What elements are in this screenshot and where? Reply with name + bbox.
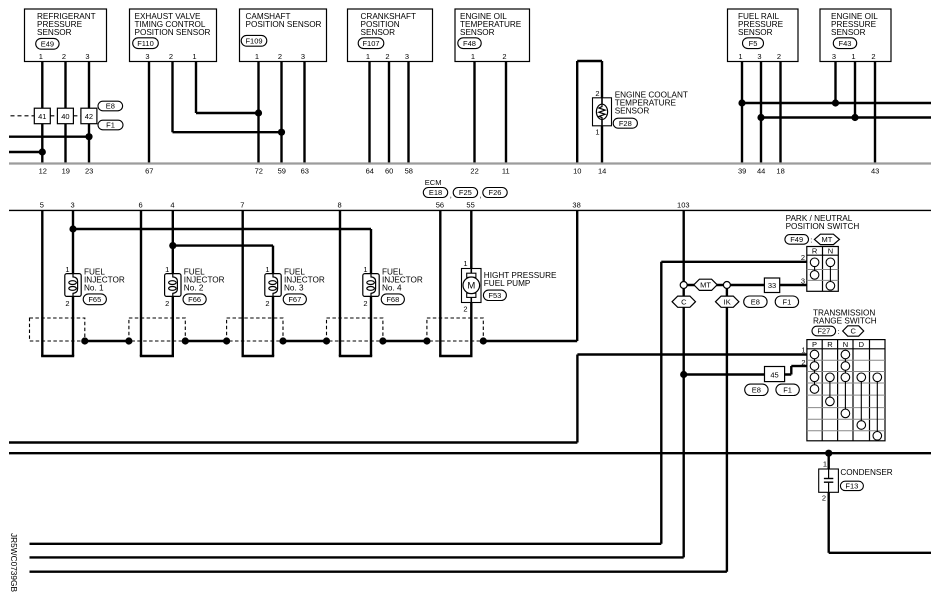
- shield chain junction dot: [423, 337, 430, 344]
- wire camshaft pin2 to ECM 59: [280, 62, 282, 164]
- svg-text:CONDENSER: CONDENSER: [840, 468, 892, 477]
- svg-text:63: 63: [301, 167, 309, 176]
- svg-text:2: 2: [801, 358, 805, 367]
- svg-text:60: 60: [385, 167, 393, 176]
- svg-text:1: 1: [65, 265, 69, 274]
- svg-text:SENSOR: SENSOR: [831, 28, 866, 37]
- engine oil pressure sensor F43: [820, 9, 891, 62]
- junction dot 103 column at 45-wire: [680, 371, 687, 378]
- svg-text:F110: F110: [137, 39, 154, 48]
- svg-text:F49: F49: [790, 235, 803, 244]
- shield chain junction dot: [223, 337, 230, 344]
- fuel injector No.1 F65: [65, 265, 125, 308]
- svg-text:2: 2: [65, 299, 69, 308]
- svg-text:1: 1: [463, 259, 467, 268]
- svg-text:F67: F67: [288, 295, 301, 304]
- wire ECM 55 down to fuel pump pin1: [470, 210, 472, 268]
- wire ECM 6 down to shield U2: [140, 210, 142, 356]
- wire condenser pin1 stub: [828, 453, 830, 469]
- wire drop 38/trans row1 down: [576, 355, 578, 443]
- transmission range switch F27: [801, 308, 885, 440]
- svg-text:POSITION SWITCH: POSITION SWITCH: [786, 222, 860, 231]
- svg-text:2: 2: [502, 52, 506, 61]
- wire below C connector down: [683, 288, 685, 557]
- svg-text:2: 2: [278, 52, 282, 61]
- wire pin1 E49 to ECM 12 (through connector 41): [41, 62, 43, 164]
- svg-text:1: 1: [471, 52, 475, 61]
- wire ECM 103 down to connector circle: [683, 210, 685, 281]
- svg-text:1: 1: [363, 265, 367, 274]
- svg-text:M: M: [467, 281, 475, 292]
- svg-text:MT: MT: [821, 235, 832, 244]
- svg-text:18: 18: [776, 167, 784, 176]
- svg-text:55: 55: [466, 201, 474, 210]
- svg-text:103: 103: [677, 201, 690, 210]
- junction dot at 42-column y137: [85, 133, 92, 140]
- wire harness segment y137: [9, 135, 89, 137]
- connector hexagon C below circle: [672, 296, 695, 307]
- wire injector3 pin2 down: [272, 296, 274, 356]
- connector hexagon IK below circle: [716, 296, 739, 307]
- svg-text:F1: F1: [783, 297, 792, 306]
- svg-text:POSITION SENSOR: POSITION SENSOR: [246, 20, 322, 29]
- wire fuel rail pin1 to ECM 39: [741, 62, 743, 164]
- svg-text:D: D: [859, 340, 865, 349]
- svg-text:N: N: [843, 340, 848, 349]
- svg-text:4: 4: [170, 201, 174, 210]
- junction dot F5 pin1: [738, 99, 745, 106]
- svg-text:67: 67: [145, 167, 153, 176]
- connector hexagon MT on wire: [694, 279, 717, 290]
- svg-text:R: R: [812, 246, 818, 255]
- svg-text:F27: F27: [817, 327, 830, 336]
- connector oval F1 (row): [775, 296, 798, 307]
- svg-text:F25: F25: [459, 188, 472, 197]
- svg-text:RANGE SWITCH: RANGE SWITCH: [813, 317, 877, 326]
- connector oval E8 (top): [98, 101, 123, 111]
- svg-text:No. 4: No. 4: [382, 284, 402, 293]
- shield chain junction dot: [182, 337, 189, 344]
- dashed link line through connectors 41 40 42: [11, 115, 35, 117]
- svg-text:2: 2: [801, 253, 805, 262]
- wire bottom run y571.3: [30, 571, 727, 573]
- wire crankshaft pin3 to ECM 58: [407, 62, 409, 164]
- svg-text:3: 3: [85, 52, 89, 61]
- svg-text:SENSOR: SENSOR: [361, 28, 396, 37]
- branch wire 4 to injector3 pin1: [173, 244, 273, 246]
- svg-text:12: 12: [39, 167, 47, 176]
- svg-text:MT: MT: [700, 281, 711, 290]
- svg-text:E18: E18: [429, 188, 442, 197]
- terminal box 45: [765, 367, 785, 382]
- svg-text:22: 22: [470, 167, 478, 176]
- svg-text:3: 3: [405, 52, 409, 61]
- camshaft position sensor F109: [240, 9, 327, 62]
- connector terminal box 40: [57, 108, 73, 124]
- wire connector line C-MT-IK-33 to park/neutral row3: [687, 284, 807, 286]
- svg-text:3: 3: [801, 276, 805, 285]
- svg-text:F66: F66: [188, 295, 201, 304]
- wire injector2 pin2 down: [172, 296, 174, 356]
- wire oil pressure pin1 stub: [854, 62, 856, 118]
- svg-text:1: 1: [738, 52, 742, 61]
- svg-text:23: 23: [85, 167, 93, 176]
- svg-text::: :: [810, 235, 812, 244]
- wire coolant sensor pin2 loop to ECM 10: [576, 61, 578, 164]
- wire below IK connector down: [726, 288, 728, 571]
- svg-text:C: C: [681, 297, 687, 306]
- wire injector1 pin2 down: [72, 296, 74, 356]
- svg-text:E8: E8: [751, 297, 760, 306]
- ECM pin numbers top row: [39, 167, 880, 176]
- junction dot on wire 4: [169, 242, 176, 249]
- svg-text:44: 44: [757, 167, 765, 176]
- wire ECM 3 down to injector1 pin1: [72, 210, 74, 273]
- svg-text:FUEL PUMP: FUEL PUMP: [484, 279, 531, 288]
- svg-text:3: 3: [832, 52, 836, 61]
- wire coolant sensor pin1 to ECM 14: [601, 126, 603, 164]
- terminal box 33: [764, 278, 779, 293]
- svg-text:E49: E49: [41, 39, 54, 48]
- svg-text:3: 3: [71, 201, 75, 210]
- engine coolant temperature sensor F28: [593, 89, 688, 136]
- svg-text:C: C: [850, 327, 856, 336]
- wire bus B y117.5 to right edge: [761, 116, 931, 118]
- exhaust valve timing control position sensor F110: [130, 9, 217, 62]
- svg-text:33: 33: [768, 281, 776, 290]
- svg-text:1: 1: [192, 52, 196, 61]
- svg-text:No. 3: No. 3: [284, 284, 304, 293]
- svg-text:N: N: [828, 246, 833, 255]
- svg-text:3: 3: [145, 52, 149, 61]
- svg-text:2: 2: [463, 305, 467, 314]
- wire oil temp pin1 to ECM 22: [473, 62, 475, 164]
- svg-text:F13: F13: [845, 482, 858, 491]
- svg-text:2: 2: [265, 299, 269, 308]
- wire bottom run y543.8: [30, 543, 662, 545]
- wire pin3 F110 to ECM 67: [148, 62, 150, 164]
- wire drop park/neutral row2 down: [660, 262, 662, 544]
- svg-text:11: 11: [502, 167, 510, 176]
- wire pin3 E49 to ECM 23 (through connector 42): [88, 62, 90, 164]
- svg-text:F1: F1: [783, 385, 792, 394]
- wire 45 branch to transmission row2: [684, 373, 792, 375]
- ECM bottom boundary line: [9, 209, 931, 211]
- svg-text:38: 38: [572, 201, 580, 210]
- svg-text:59: 59: [278, 167, 286, 176]
- svg-text:F26: F26: [489, 188, 502, 197]
- svg-text:1: 1: [265, 265, 269, 274]
- shield chain junction dot: [81, 337, 88, 344]
- svg-text:64: 64: [366, 167, 374, 176]
- svg-text:10: 10: [573, 167, 581, 176]
- svg-text:1: 1: [851, 52, 855, 61]
- wire pin2 F110 jog to camshaft column 59: [171, 62, 173, 133]
- wire injector4 pin2 down: [370, 296, 372, 356]
- fuel injector No.3 F67: [265, 265, 325, 308]
- svg-text:IK: IK: [724, 297, 731, 306]
- svg-text:2: 2: [822, 494, 826, 503]
- svg-text:F5: F5: [749, 39, 758, 48]
- wire fuel pump pin2 down: [470, 303, 472, 357]
- svg-text:56: 56: [436, 201, 444, 210]
- svg-text:1: 1: [366, 52, 370, 61]
- svg-text:43: 43: [871, 167, 879, 176]
- wire pin1 F110 jog to camshaft column 72: [195, 62, 197, 114]
- svg-text:45: 45: [770, 371, 778, 380]
- wire bus A y103 to right edge: [742, 102, 931, 104]
- svg-text:JR5WC0739GB: JR5WC0739GB: [9, 533, 19, 592]
- svg-text:E8: E8: [752, 385, 761, 394]
- shield chain junction dot: [323, 337, 330, 344]
- wire crankshaft pin2 to ECM 60: [388, 62, 390, 164]
- svg-text:1: 1: [823, 459, 827, 468]
- svg-text:F43: F43: [839, 39, 852, 48]
- fuel injector No.4 F68: [363, 265, 423, 308]
- shield chain junction dot: [379, 337, 386, 344]
- svg-text:POSITION SENSOR: POSITION SENSOR: [135, 28, 211, 37]
- ECM connector ovals E18 F25 F26: [423, 188, 447, 198]
- wire bottom run y557: [30, 556, 684, 558]
- fuel rail pressure sensor F5: [728, 9, 799, 62]
- svg-text:39: 39: [738, 167, 746, 176]
- branch wire 3 to injector4 pin1: [73, 228, 371, 230]
- wire bottom run y442.5: [9, 441, 577, 443]
- connector circle C on 103 column: [680, 282, 687, 289]
- wire ECM 8 down to shield U4: [339, 210, 341, 356]
- svg-text:1: 1: [801, 346, 805, 355]
- svg-text:P: P: [812, 340, 817, 349]
- svg-text:2: 2: [595, 89, 599, 98]
- svg-text:SENSOR: SENSOR: [460, 28, 495, 37]
- junction dot on wire 3: [69, 225, 76, 232]
- ECM top boundary line (gray): [9, 162, 931, 164]
- svg-text:3: 3: [757, 52, 761, 61]
- wire ECM 56 down to shield U5: [439, 210, 441, 356]
- wire condenser pin2 down and right: [828, 492, 830, 553]
- wire oil temp pin2 to ECM 11: [505, 62, 507, 164]
- svg-text:F65: F65: [88, 295, 101, 304]
- junction dot F43 pin1: [851, 114, 858, 121]
- svg-text::: :: [838, 327, 840, 336]
- connector oval E8 (45 row): [745, 384, 768, 395]
- park/neutral position switch F49: [785, 214, 859, 291]
- svg-text:SENSOR: SENSOR: [615, 107, 650, 116]
- hight pressure fuel pump F53 (motor): [462, 259, 557, 313]
- svg-text:2: 2: [777, 52, 781, 61]
- U-turn bottoms: [41, 355, 74, 357]
- svg-text:1: 1: [165, 265, 169, 274]
- junction dot at 41-column y152: [39, 148, 46, 155]
- fuel injector No.2 F66: [165, 265, 225, 308]
- shield chain junction dot: [279, 337, 286, 344]
- svg-text:,: ,: [480, 191, 482, 200]
- wire ECM 7 down to shield U3: [241, 210, 243, 356]
- svg-text:2: 2: [165, 299, 169, 308]
- wire harness segment y152: [9, 151, 42, 153]
- svg-text:F53: F53: [488, 291, 501, 300]
- svg-text:42: 42: [85, 112, 93, 121]
- svg-text:R: R: [827, 340, 833, 349]
- svg-text:2: 2: [169, 52, 173, 61]
- connector oval F1 (45 row): [776, 384, 799, 395]
- svg-text:F28: F28: [619, 119, 632, 128]
- svg-text:5: 5: [40, 201, 44, 210]
- svg-text:,: ,: [450, 191, 452, 200]
- wire ECM 4 down to injector2 pin1: [172, 210, 174, 273]
- wire camshaft pin3 to ECM 63: [303, 62, 305, 164]
- svg-text:2: 2: [385, 52, 389, 61]
- shield dashed box injector1: [30, 318, 85, 341]
- svg-text:ECM: ECM: [425, 178, 442, 187]
- wire full-width run y453.2: [9, 452, 931, 454]
- wire ECM 5 down to shield U1: [41, 210, 43, 356]
- wire camshaft pin1 to ECM 72: [257, 62, 259, 164]
- wire oil pressure pin3 stub: [834, 62, 836, 104]
- svg-text:F109: F109: [245, 36, 262, 45]
- svg-text:SENSOR: SENSOR: [37, 28, 72, 37]
- refrigerant pressure sensor E49: [25, 9, 107, 62]
- wire ECM 38 down to shield chain: [576, 210, 578, 341]
- junction dot camshaft pin2 column: [278, 129, 285, 136]
- svg-text:F1: F1: [106, 121, 115, 130]
- svg-text:58: 58: [405, 167, 413, 176]
- svg-text:No. 1: No. 1: [84, 284, 104, 293]
- connector oval F1 (top): [98, 120, 123, 130]
- wire park/neutral row2 to left drop: [661, 261, 807, 263]
- wire fuel rail pin3 to ECM 44: [760, 62, 762, 164]
- svg-text:F48: F48: [463, 39, 476, 48]
- svg-text:1: 1: [39, 52, 43, 61]
- svg-text:41: 41: [38, 112, 46, 121]
- junction dot F5 pin3: [757, 114, 764, 121]
- svg-text:19: 19: [62, 167, 70, 176]
- connector circle IK: [723, 282, 730, 289]
- junction dot condenser tap: [825, 450, 832, 457]
- svg-text:40: 40: [61, 112, 69, 121]
- svg-text:6: 6: [139, 201, 143, 210]
- condenser F13: [819, 459, 893, 502]
- junction dot F43 pin3: [832, 99, 839, 106]
- svg-text:14: 14: [598, 167, 606, 176]
- engine oil temperature sensor F48: [455, 9, 530, 62]
- connector terminal box 42: [81, 108, 97, 124]
- svg-text:7: 7: [240, 201, 244, 210]
- svg-text:SENSOR: SENSOR: [738, 28, 773, 37]
- svg-text:72: 72: [255, 167, 263, 176]
- svg-text:F68: F68: [386, 295, 399, 304]
- ECM pin numbers bottom row: [40, 201, 690, 210]
- shield chain junction dot: [125, 337, 132, 344]
- crankshaft position sensor F107: [348, 9, 433, 62]
- svg-text:1: 1: [595, 127, 599, 136]
- svg-text:No. 2: No. 2: [184, 284, 204, 293]
- wire crankshaft pin1 to ECM 64: [368, 62, 370, 164]
- shield chain junction dot: [480, 337, 487, 344]
- wire oil pressure pin2 to ECM 43: [874, 62, 876, 164]
- svg-text:2: 2: [62, 52, 66, 61]
- wire pin2 E49 to ECM 19 (through connector 40): [64, 62, 66, 164]
- svg-text:8: 8: [338, 201, 342, 210]
- connector oval E8 (row): [744, 296, 767, 307]
- svg-text:E8: E8: [106, 102, 115, 111]
- wire fuel rail pin2 to ECM 18: [779, 62, 781, 164]
- svg-text:1: 1: [255, 52, 259, 61]
- junction dot camshaft pin1 column: [255, 109, 262, 116]
- wire transmission row1 long run: [577, 353, 807, 355]
- connector terminal box 41: [34, 108, 50, 124]
- svg-text:3: 3: [301, 52, 305, 61]
- svg-text:2: 2: [871, 52, 875, 61]
- svg-text:F107: F107: [362, 39, 379, 48]
- shield chain links y341: [85, 340, 129, 342]
- svg-text:2: 2: [363, 299, 367, 308]
